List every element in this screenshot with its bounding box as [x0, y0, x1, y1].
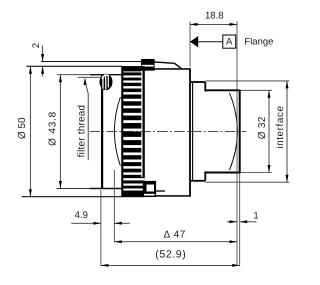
svg-text:A: A	[226, 37, 233, 48]
filter thread top OD (line 43.8) + extension	[57, 74, 90, 76]
filter thread root line (leader target)	[78, 76, 101, 78]
mount ring right face upper	[204, 82, 206, 92]
clamp band gap (white column)	[141, 70, 142, 177]
dimension line 47	[114, 241, 237, 243]
front barrel bottom OD (line 50) + extension	[22, 196, 122, 198]
clamp band edge (black bar)	[143, 70, 145, 177]
dimension 1 right segment	[240, 221, 257, 223]
svg-text:Ø 50: Ø 50	[17, 117, 28, 139]
dimension line 18.8	[190, 23, 237, 25]
mount ring inner face line	[192, 82, 194, 181]
extension line lens vertex (4.9 right)	[113, 170, 115, 242]
main body rear face	[189, 68, 191, 196]
datum triangle A	[190, 36, 198, 47]
dimension line 43.8	[59, 75, 61, 189]
dimension line 50	[29, 66, 31, 196]
extension line 32 top	[240, 89, 272, 91]
svg-text:18.8: 18.8	[205, 10, 224, 21]
set screw S1 (front, top)	[100, 74, 113, 90]
datum box A	[223, 35, 236, 48]
svg-text:2: 2	[31, 43, 42, 48]
dimension 2 upper segment	[42, 46, 44, 62]
rear element surface arc	[230, 93, 238, 170]
mount ring right face lower	[204, 171, 206, 181]
svg-text:4.9: 4.9	[75, 210, 88, 221]
main body top OD	[154, 68, 190, 70]
interface cylinder rear face	[239, 90, 241, 172]
svg-text:Ø 32: Ø 32	[257, 116, 268, 139]
dimension line 32	[268, 90, 270, 172]
svg-text:Flange: Flange	[244, 36, 273, 47]
filter thread underline	[87, 94, 89, 161]
svg-text:interface: interface	[275, 105, 286, 148]
dimension 4.9 right segment	[114, 222, 129, 224]
knurled focus ring (striped band)	[122, 66, 145, 197]
wire centerline across knurl	[124, 130, 145, 132]
focus lock block (top)	[141, 59, 154, 70]
knurl OD top line (2mm step) + extension	[41, 61, 141, 63]
dimension 1 left segment	[227, 221, 237, 223]
wire centerline (optical axis, dash-dot)	[90, 130, 247, 132]
svg-text:1: 1	[253, 211, 258, 222]
mount ring top OD	[191, 81, 205, 83]
filter thread bottom OD + extension	[57, 188, 90, 190]
front face (thick vertical)	[101, 74, 103, 188]
svg-text:Ø 43.8: Ø 43.8	[48, 111, 59, 146]
lock screw step line	[156, 190, 165, 192]
extension line 32 bottom	[240, 172, 272, 174]
svg-text:Δ 47: Δ 47	[163, 230, 185, 241]
lock screw block (bottom)	[143, 181, 156, 197]
front barrel right end	[121, 66, 123, 196]
extension line body rear (18.8 left)	[189, 21, 191, 66]
svg-text:(52.9): (52.9)	[155, 248, 186, 260]
svg-text:filter thread: filter thread	[76, 105, 87, 158]
filter thread leader + arrow	[85, 81, 88, 94]
dimension 2 lower segment	[42, 66, 44, 76]
datum leader	[198, 41, 223, 43]
extension line flange plane (datum A)	[236, 21, 238, 266]
front barrel top OD (line 50) + extension	[26, 65, 122, 67]
front element surface arc	[114, 97, 120, 166]
dimension 4.9 left segment	[71, 222, 101, 224]
interface seat top line + extension	[205, 80, 289, 82]
extension line rear face down	[239, 173, 241, 266]
interface seat bottom line + extension	[205, 181, 289, 183]
dimension line interface	[286, 81, 288, 182]
wedge ramp on top tab	[154, 62, 174, 63]
interface cylinder top OD (line 32)	[205, 89, 240, 91]
mount ring bottom OD	[191, 180, 205, 182]
dimension line 52.9	[101, 264, 240, 266]
extension line front vertex plane	[100, 190, 102, 266]
interface cylinder bottom OD (line 32)	[205, 172, 240, 174]
main body bottom OD	[156, 195, 190, 197]
